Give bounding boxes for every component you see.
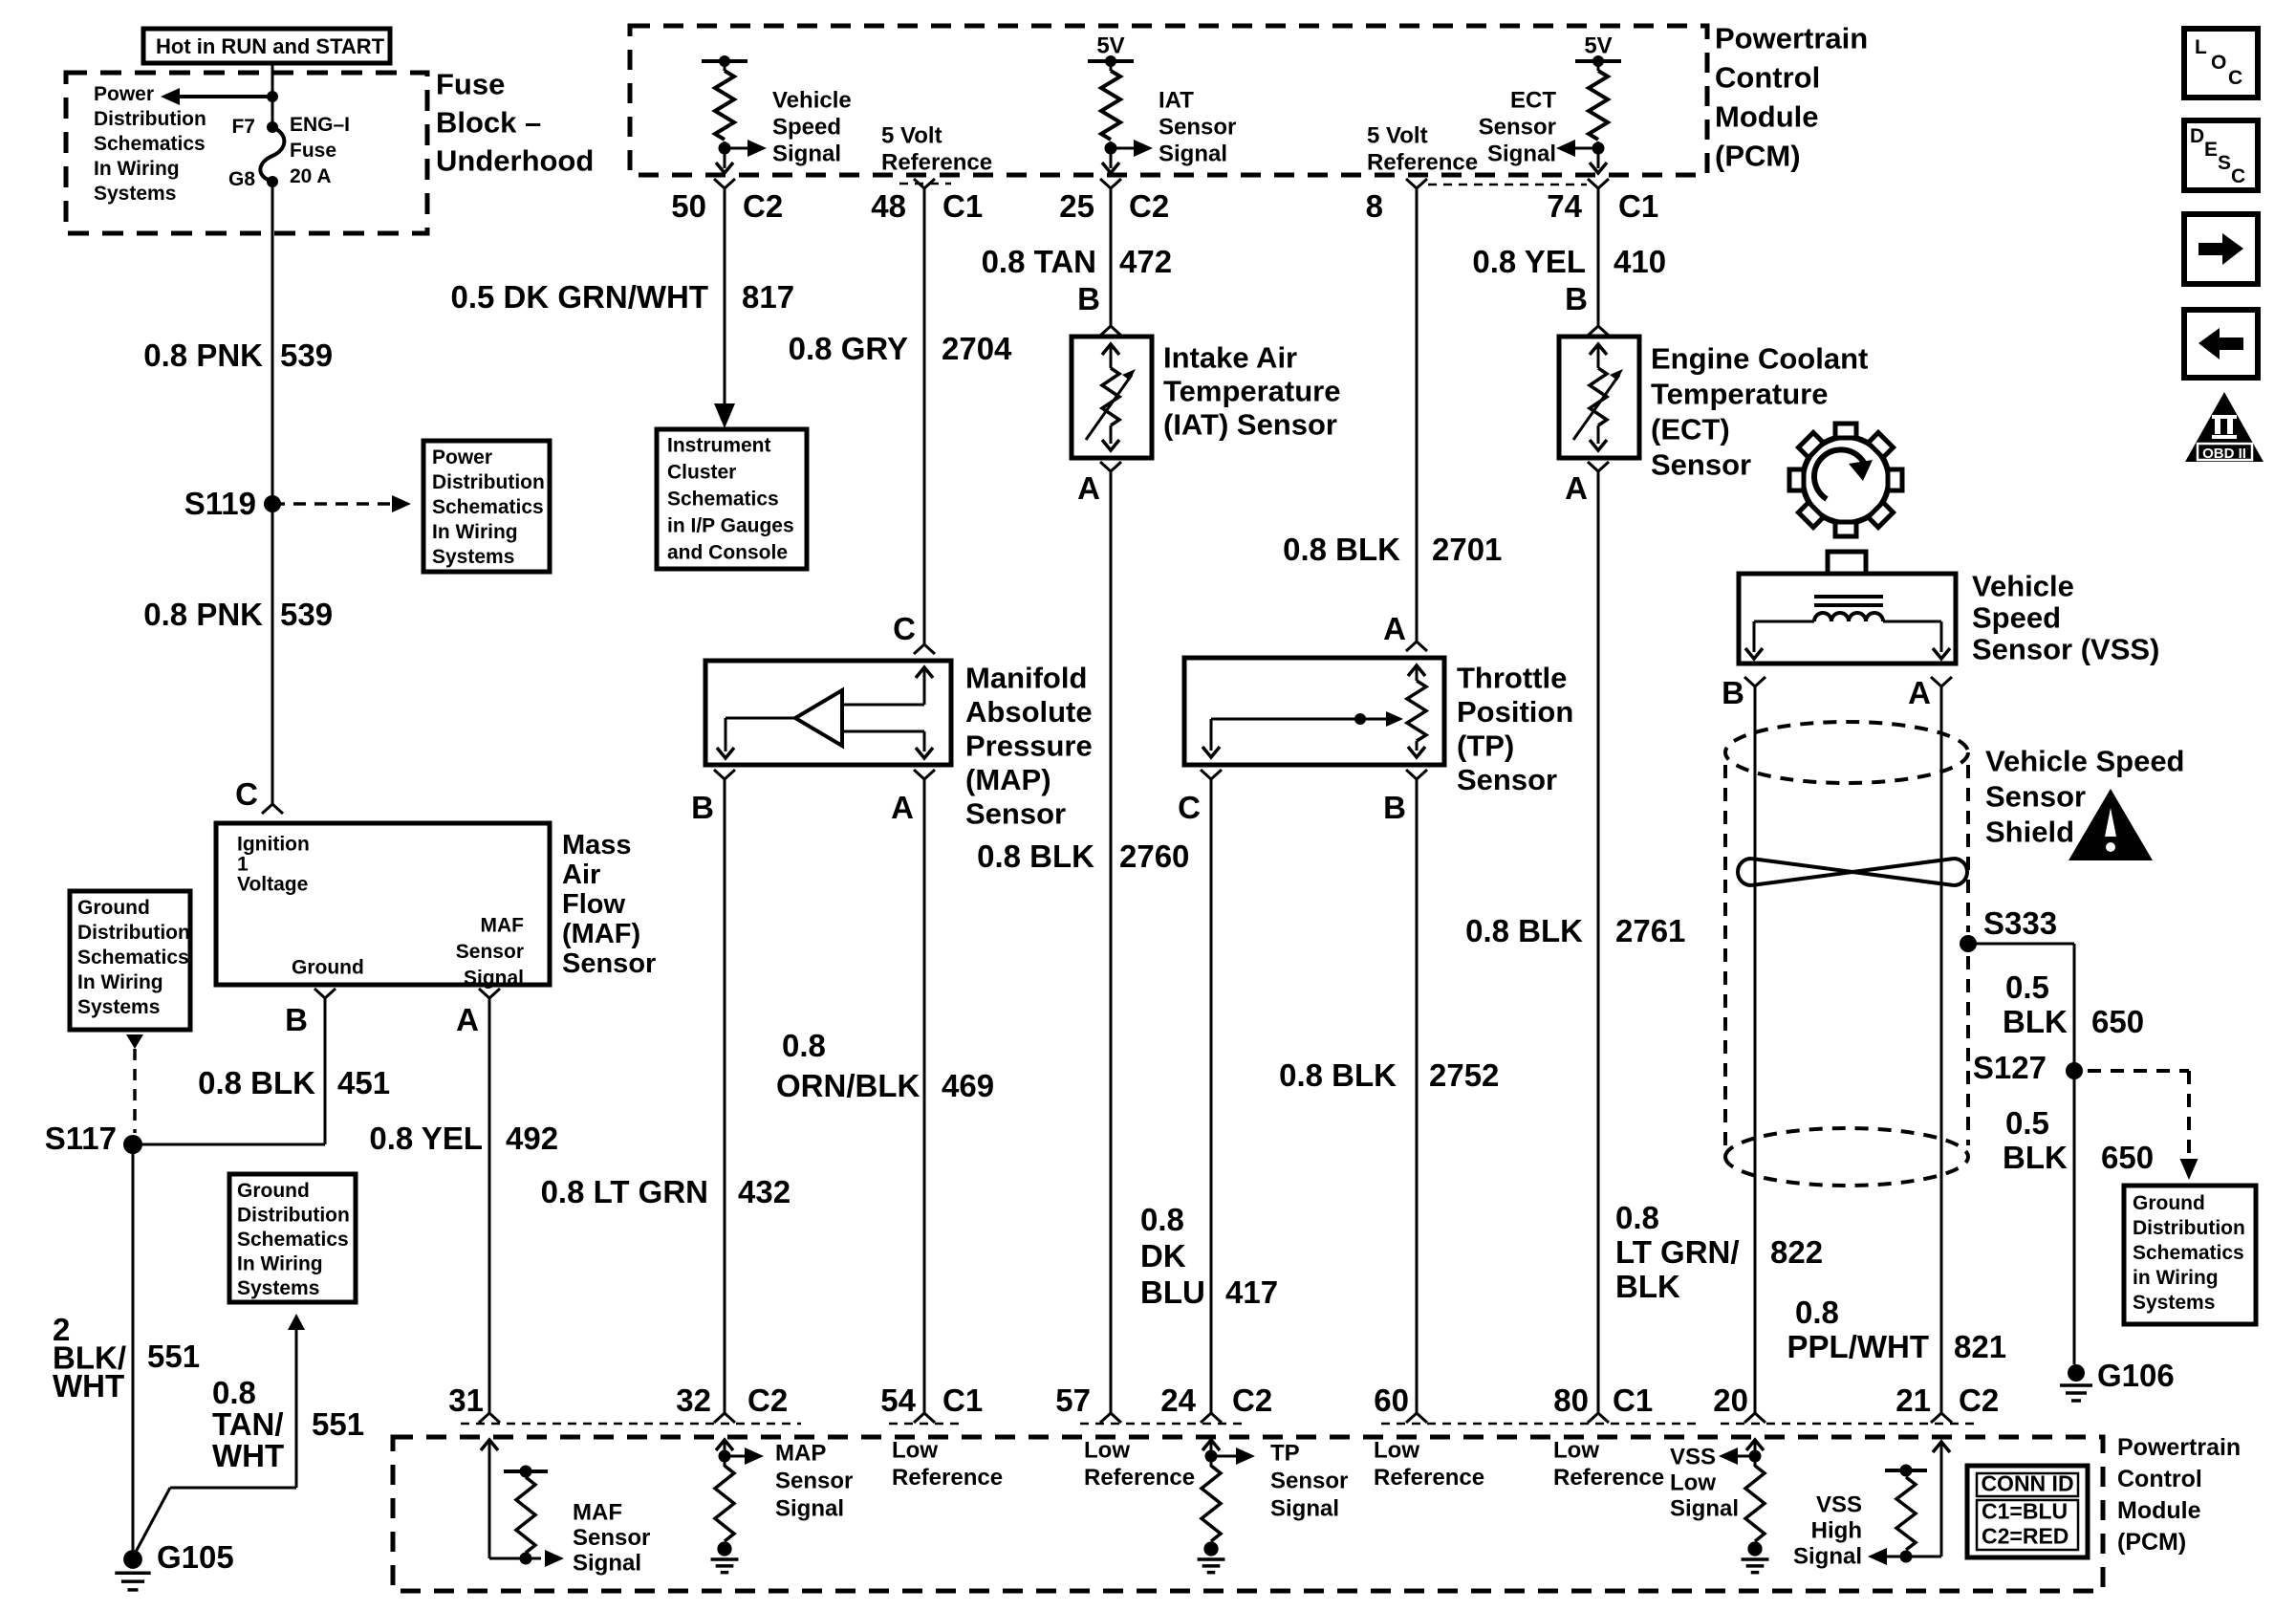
svg-text:C: C <box>2228 67 2242 89</box>
svg-text:C: C <box>235 776 258 812</box>
svg-text:551: 551 <box>312 1406 364 1442</box>
svg-text:(ECT): (ECT) <box>1651 413 1730 446</box>
wire VSS B to pin 20 <box>1754 686 1757 1413</box>
svg-text:Distribution: Distribution <box>2133 1217 2245 1239</box>
svg-text:0.8 BLK: 0.8 BLK <box>1465 913 1583 948</box>
svg-text:32: 32 <box>676 1382 711 1418</box>
pin C label (MAF) <box>235 776 283 814</box>
thin connector dash C1 top (8-74) <box>1428 184 1587 186</box>
svg-text:2701: 2701 <box>1432 532 1502 567</box>
svg-text:G105: G105 <box>157 1539 234 1575</box>
svg-text:Reference: Reference <box>1553 1465 1664 1491</box>
svg-text:In Wiring: In Wiring <box>432 521 518 543</box>
svg-text:S117: S117 <box>45 1121 117 1156</box>
svg-text:(IAT) Sensor: (IAT) Sensor <box>1163 408 1337 442</box>
dashed branch S127 to ground distribution <box>2088 1071 2199 1180</box>
svg-text:650: 650 <box>2101 1140 2154 1175</box>
svg-text:74: 74 <box>1547 188 1582 224</box>
svg-text:BLK: BLK <box>2003 1004 2068 1039</box>
svg-text:Flow: Flow <box>562 889 625 920</box>
svg-text:Systems: Systems <box>237 1277 319 1299</box>
label IAT Sensor Signal <box>1159 88 1236 167</box>
svg-text:0.5: 0.5 <box>2005 1105 2049 1141</box>
label 0.8 BLK 2752 <box>1279 1057 1499 1093</box>
svg-text:in I/P Gauges: in I/P Gauges <box>667 515 794 537</box>
svg-text:G8: G8 <box>228 168 255 190</box>
connector pin 48 <box>871 179 983 224</box>
wire 74 C1 to ECT B (0.8 YEL 410) <box>1597 188 1600 326</box>
svg-text:492: 492 <box>506 1121 558 1156</box>
svg-text:Systems: Systems <box>2133 1292 2215 1314</box>
svg-text:Shield: Shield <box>1985 816 2074 849</box>
svg-text:A: A <box>891 790 914 825</box>
Powertrain Control Module (PCM) top dashed box <box>630 26 1707 175</box>
svg-text:Reference: Reference <box>892 1465 1003 1491</box>
svg-text:(PCM): (PCM) <box>2117 1529 2186 1556</box>
pin A label (MAP) <box>891 770 935 825</box>
label Powertrain Control Module (PCM) top <box>1715 22 1868 173</box>
svg-text:24: 24 <box>1160 1382 1196 1418</box>
svg-text:Power: Power <box>94 83 154 105</box>
svg-text:Control: Control <box>1715 61 1820 95</box>
svg-text:(PCM): (PCM) <box>1715 140 1801 173</box>
svg-text:G106: G106 <box>2097 1358 2175 1393</box>
pin B label (VSS) <box>1722 675 1765 710</box>
svg-text:BLK: BLK <box>2003 1140 2068 1175</box>
svg-text:Signal: Signal <box>1670 1496 1739 1522</box>
svg-text:0.8: 0.8 <box>782 1028 826 1063</box>
svg-text:A: A <box>1565 470 1588 506</box>
svg-text:PPL/WHT: PPL/WHT <box>1787 1329 1929 1364</box>
svg-text:Reference: Reference <box>1084 1465 1195 1491</box>
VSS low signal input (PCM) <box>1719 1440 1768 1573</box>
svg-text:S: S <box>2218 152 2231 174</box>
svg-text:Module: Module <box>2117 1497 2201 1524</box>
svg-text:B: B <box>1722 675 1744 710</box>
svg-text:S119: S119 <box>184 486 256 521</box>
svg-text:Distribution: Distribution <box>237 1205 350 1227</box>
svg-text:Systems: Systems <box>94 183 176 205</box>
label Vehicle Speed Signal <box>772 88 852 167</box>
svg-text:Voltage: Voltage <box>237 874 308 896</box>
label F7 <box>231 116 255 138</box>
wire MAP A to pin 54 (0.8 ORN/BLK 469) <box>923 779 926 1413</box>
svg-text:0.8 LT GRN: 0.8 LT GRN <box>541 1174 708 1209</box>
fuse block dashed box (Fuse Block - Underhood) <box>66 73 427 233</box>
svg-text:0.8 YEL: 0.8 YEL <box>369 1121 483 1156</box>
svg-text:Sensor: Sensor <box>775 1469 853 1494</box>
svg-text:Signal: Signal <box>775 1496 844 1522</box>
svg-text:0.8 PNK: 0.8 PNK <box>143 597 263 632</box>
svg-text:0.8: 0.8 <box>212 1375 256 1410</box>
svg-text:B: B <box>1077 281 1100 316</box>
MAF sensor signal input (PCM) <box>481 1440 564 1567</box>
svg-text:Schematics: Schematics <box>77 947 189 969</box>
svg-text:Cluster: Cluster <box>667 462 736 484</box>
twisted pair symbol <box>1738 859 1967 885</box>
svg-text:LT GRN/: LT GRN/ <box>1615 1234 1740 1270</box>
svg-text:Powertrain: Powertrain <box>1715 22 1868 55</box>
thin connector dash at 48 <box>899 183 951 185</box>
label 0.8 GRY 2704 <box>789 331 1012 366</box>
pin A label (ECT) <box>1565 462 1609 506</box>
svg-text:0.8 YEL: 0.8 YEL <box>1472 244 1586 279</box>
VSS speed signal driver resistor (PCM) <box>702 55 767 173</box>
svg-text:(MAP): (MAP) <box>965 763 1051 796</box>
MAP sensor signal input (PCM) <box>711 1440 764 1573</box>
svg-text:C2: C2 <box>743 188 783 224</box>
svg-text:MAF: MAF <box>573 1500 622 1526</box>
label Vehicle Speed Sensor Shield <box>1985 745 2185 849</box>
label Powertrain Control Module (PCM) bottom <box>2117 1434 2241 1556</box>
svg-text:Speed: Speed <box>1972 601 2061 635</box>
svg-text:OBD II: OBD II <box>2202 446 2246 462</box>
wire IAT A to pin 57 (0.8 BLK 2760) <box>1110 471 1113 1413</box>
svg-text:0.8 BLK: 0.8 BLK <box>1283 532 1400 567</box>
ECT pull-up resistor (PCM) <box>1556 55 1621 173</box>
svg-text:432: 432 <box>738 1174 791 1209</box>
label Fuse Block - Underhood <box>436 68 594 178</box>
connector pin 31 <box>448 1382 500 1423</box>
svg-text:Sensor (VSS): Sensor (VSS) <box>1972 633 2159 666</box>
label 0.8 TAN 472 <box>982 244 1172 279</box>
svg-text:20: 20 <box>1713 1382 1748 1418</box>
svg-text:5 Volt: 5 Volt <box>1367 123 1428 149</box>
svg-text:In Wiring: In Wiring <box>237 1253 323 1275</box>
svg-text:C2: C2 <box>1959 1382 1999 1418</box>
svg-text:Signal: Signal <box>772 142 841 167</box>
svg-text:Low: Low <box>1670 1470 1716 1496</box>
label 0.8 BLK 2760 <box>977 838 1189 874</box>
connector pin 8 <box>1366 179 1427 224</box>
svg-text:2752: 2752 <box>1429 1057 1499 1093</box>
svg-text:20 A: 20 A <box>290 165 332 187</box>
svg-text:2761: 2761 <box>1615 913 1685 948</box>
svg-text:Air: Air <box>562 860 600 890</box>
svg-text:Vehicle: Vehicle <box>772 88 852 114</box>
wire 50 C2 to instrument cluster (0.5 DK GRN/WHT 817) <box>714 188 735 428</box>
svg-text:ORN/BLK: ORN/BLK <box>776 1068 920 1103</box>
box Ground Distribution Schematics In Wiring Systems (left) <box>70 891 190 1030</box>
label Vehicle Speed Sensor (VSS) <box>1972 570 2159 666</box>
svg-text:0.8: 0.8 <box>1615 1200 1659 1235</box>
pin B label (IAT) <box>1077 281 1121 336</box>
label 0.8 PNK 539 (lower) <box>143 597 333 632</box>
svg-text:Pressure: Pressure <box>965 729 1093 763</box>
thin connector dashes bottom <box>461 1423 801 1426</box>
svg-text:TAN/: TAN/ <box>212 1406 284 1442</box>
svg-text:(TP): (TP) <box>1457 729 1514 763</box>
svg-text:821: 821 <box>1954 1329 2006 1364</box>
svg-text:A: A <box>1383 611 1406 646</box>
wire S333 to S127 (0.5 BLK 650) <box>1968 944 2074 1364</box>
svg-text:0.5: 0.5 <box>2005 969 2049 1005</box>
TP sensor signal input (PCM) <box>1198 1440 1255 1573</box>
svg-text:High: High <box>1811 1518 1862 1544</box>
arrow to Power Distribution Schematics <box>161 88 272 105</box>
svg-text:VSS: VSS <box>1670 1445 1716 1470</box>
svg-text:417: 417 <box>1225 1274 1278 1310</box>
label 0.8 BLK 451 <box>198 1065 390 1100</box>
pin A label (MAF) <box>456 989 500 1037</box>
label ENG-I Fuse 20 A <box>290 114 350 187</box>
OBD II icon <box>2185 392 2264 462</box>
svg-text:Sensor: Sensor <box>1457 763 1557 796</box>
svg-text:Schematics: Schematics <box>94 133 206 155</box>
wire TP C to pin 24 (0.8 DK BLU 417) <box>1210 779 1213 1413</box>
svg-text:0.8 BLK: 0.8 BLK <box>1279 1057 1397 1093</box>
svg-text:ENG–I: ENG–I <box>290 114 350 136</box>
svg-text:Throttle: Throttle <box>1457 662 1567 695</box>
node junction above fuse <box>267 91 278 102</box>
svg-text:C2: C2 <box>1232 1382 1272 1418</box>
svg-text:5V: 5V <box>1584 33 1612 59</box>
svg-text:Ground: Ground <box>292 957 364 979</box>
pin B label (ECT) <box>1565 281 1609 336</box>
svg-text:551: 551 <box>147 1339 200 1374</box>
connector pin 74 <box>1547 179 1658 224</box>
svg-text:50: 50 <box>671 188 706 224</box>
svg-text:Signal: Signal <box>464 968 524 990</box>
svg-text:Low: Low <box>1084 1438 1130 1464</box>
label 0.8 BLK 2761 <box>1465 913 1685 948</box>
svg-text:F7: F7 <box>231 116 255 138</box>
wire MAP B to pin 32 (0.8 LT GRN 432) <box>724 779 726 1413</box>
svg-text:Mass: Mass <box>562 830 632 860</box>
svg-text:2760: 2760 <box>1119 838 1189 874</box>
svg-text:Distribution: Distribution <box>94 108 206 130</box>
svg-text:Speed: Speed <box>772 115 841 141</box>
svg-text:C: C <box>2231 165 2245 187</box>
svg-text:8: 8 <box>1366 188 1383 224</box>
svg-text:Low: Low <box>1553 1438 1599 1464</box>
svg-text:Sensor: Sensor <box>1985 780 2086 814</box>
label 5V (ECT) <box>1584 33 1612 59</box>
VSS high signal input (PCM) <box>1868 1442 1950 1565</box>
svg-text:Reference: Reference <box>1374 1465 1484 1491</box>
label MAF Sensor Signal (PCM) <box>573 1500 650 1577</box>
fuse F7/G8 terminals <box>267 121 278 187</box>
svg-text:Ignition: Ignition <box>237 834 310 856</box>
svg-text:B: B <box>285 1002 308 1037</box>
svg-text:Schematics: Schematics <box>237 1229 349 1251</box>
label 0.8 YEL 410 <box>1472 244 1666 279</box>
label 2 BLK/WHT 551 <box>53 1312 200 1404</box>
VSS reluctor gear icon <box>1789 424 1902 536</box>
svg-text:5V: 5V <box>1096 33 1124 59</box>
svg-text:31: 31 <box>448 1382 484 1418</box>
svg-text:Distribution: Distribution <box>77 922 190 944</box>
svg-text:25: 25 <box>1059 188 1094 224</box>
wire 48 C1 to MAP sensor C (0.8 GRY 2704) <box>923 188 926 644</box>
svg-text:C2=RED: C2=RED <box>1982 1524 2069 1549</box>
MAF sensor box (Mass Air Flow) <box>216 823 550 990</box>
wire from Hot box into fuse block <box>271 63 274 127</box>
wire 25 C2 to IAT B (0.8 TAN 472) <box>1110 188 1113 326</box>
svg-text:Sensor: Sensor <box>1159 115 1236 141</box>
dashed reference wire from S119 <box>272 495 411 512</box>
svg-text:Signal: Signal <box>1793 1544 1862 1570</box>
label Intake Air Temperature (IAT) Sensor <box>1163 341 1341 442</box>
svg-text:In Wiring: In Wiring <box>77 971 163 993</box>
label Engine Coolant Temperature (ECT) Sensor <box>1651 342 1868 482</box>
svg-text:817: 817 <box>742 279 794 315</box>
label 0.8 PPL/WHT 821 <box>1787 1295 2007 1364</box>
svg-text:C1: C1 <box>942 1382 983 1418</box>
label Mass Air Flow (MAF) Sensor <box>562 830 656 979</box>
svg-text:WHT: WHT <box>53 1368 124 1404</box>
svg-text:Absolute: Absolute <box>965 695 1093 729</box>
pin B label (TP) <box>1383 770 1427 825</box>
svg-text:WHT: WHT <box>212 1438 284 1473</box>
svg-text:1: 1 <box>237 854 249 876</box>
pin B label (MAF) <box>285 989 336 1037</box>
MAP sensor (Manifold Absolute Pressure) <box>705 661 951 765</box>
svg-text:C: C <box>1178 790 1201 825</box>
ECT sensor (Engine Coolant Temperature) <box>1559 337 1639 458</box>
VSS mounting tab <box>1828 552 1866 574</box>
svg-text:80: 80 <box>1553 1382 1589 1418</box>
wire TP B to pin 60 (0.8 BLK 2752) <box>1416 779 1419 1413</box>
svg-text:L: L <box>2195 36 2207 58</box>
splice S127 <box>1973 1050 2083 1085</box>
svg-text:IAT: IAT <box>1159 88 1194 114</box>
svg-text:Sensor: Sensor <box>562 948 656 979</box>
connector pin 80 <box>1553 1382 1653 1423</box>
svg-text:Signal: Signal <box>1270 1496 1339 1522</box>
label 5V (IAT) <box>1096 33 1124 59</box>
svg-text:Intake Air: Intake Air <box>1163 341 1297 375</box>
label MAP Sensor Signal (PCM) <box>775 1441 853 1522</box>
label 0.8 BLK 2701 <box>1283 532 1502 567</box>
label Low Reference (80) <box>1553 1438 1664 1491</box>
svg-text:Fuse: Fuse <box>436 68 505 101</box>
svg-text:C1=BLU: C1=BLU <box>1982 1499 2068 1524</box>
wire MAF B to S117 (0.8 BLK 451) <box>133 998 325 1144</box>
svg-text:Sensor: Sensor <box>1270 1469 1348 1494</box>
svg-text:Underhood: Underhood <box>436 144 594 178</box>
svg-text:822: 822 <box>1770 1234 1823 1270</box>
svg-text:BLK: BLK <box>1615 1269 1680 1304</box>
svg-text:48: 48 <box>871 188 906 224</box>
svg-text:Vehicle Speed: Vehicle Speed <box>1985 745 2185 778</box>
svg-text:472: 472 <box>1119 244 1172 279</box>
svg-text:Block –: Block – <box>436 106 541 140</box>
label TP Sensor Signal (PCM) <box>1270 1441 1348 1522</box>
svg-text:21: 21 <box>1895 1382 1931 1418</box>
label Manifold Absolute Pressure (MAP) Sensor <box>965 662 1093 831</box>
forward arrow icon <box>2184 214 2258 284</box>
pin C label (MAP) <box>893 611 935 654</box>
svg-text:Control: Control <box>2117 1466 2202 1492</box>
svg-text:O: O <box>2211 52 2226 74</box>
svg-text:Manifold: Manifold <box>965 662 1087 695</box>
label 0.5 BLK 650 (lower) <box>2003 1105 2154 1175</box>
pin B label (MAP) <box>691 770 735 825</box>
IAT sensor (Intake Air Temperature) <box>1072 337 1152 458</box>
VSS shield dashed cylinder <box>1725 722 1968 1186</box>
label 5 Volt Reference (48) <box>881 123 992 176</box>
Vehicle Speed Sensor (VSS) box <box>1739 574 1956 664</box>
svg-text:57: 57 <box>1055 1382 1091 1418</box>
svg-text:2704: 2704 <box>942 331 1012 366</box>
box Ground Distribution Schematics In Wiring Systems (mid) <box>229 1174 356 1302</box>
svg-text:S127: S127 <box>1973 1050 2047 1085</box>
svg-text:410: 410 <box>1614 244 1666 279</box>
connector pin 54 <box>880 1382 983 1423</box>
svg-text:0.8 PNK: 0.8 PNK <box>143 337 263 373</box>
wire VSS A to pin 21 <box>1940 686 1943 1413</box>
fuse ENG-I element <box>260 127 284 181</box>
svg-text:B: B <box>1383 790 1406 825</box>
svg-text:539: 539 <box>280 337 333 373</box>
CONN ID table <box>1967 1466 2088 1557</box>
DESC icon <box>2184 120 2258 190</box>
svg-text:0.8: 0.8 <box>1795 1295 1839 1330</box>
label 0.8 YEL 492 <box>369 1121 558 1156</box>
splice S333 on shield <box>1960 905 2057 952</box>
svg-text:Systems: Systems <box>77 996 160 1018</box>
svg-text:A: A <box>456 1002 479 1037</box>
svg-text:Signal: Signal <box>1487 142 1556 167</box>
label 0.8 TAN/WHT 551 <box>212 1375 364 1473</box>
wire 8 to TP sensor A (0.8 BLK 2701) <box>1416 188 1419 642</box>
svg-text:54: 54 <box>880 1382 916 1418</box>
svg-text:CONN ID: CONN ID <box>1981 1471 2073 1496</box>
svg-text:D: D <box>2190 125 2204 147</box>
label VSS Low Signal (PCM) <box>1670 1445 1739 1522</box>
svg-text:VSS: VSS <box>1816 1492 1862 1518</box>
wire S117 to G105 (2 BLK/WHT 551) <box>132 1144 135 1556</box>
label Power Distribution Schematics In Wiring Systems (fuse box) <box>94 83 206 205</box>
label Low Reference (60) <box>1374 1438 1484 1491</box>
LOC icon <box>2184 29 2258 98</box>
connector pin 20 <box>1713 1382 1765 1423</box>
pin A label (VSS) <box>1908 675 1952 710</box>
label G8 <box>228 168 255 190</box>
wire fuse to MAF sensor (0.8 PNK 539) <box>271 182 274 804</box>
splice S119 <box>184 486 281 521</box>
svg-text:0.8 TAN: 0.8 TAN <box>982 244 1096 279</box>
svg-text:in Wiring: in Wiring <box>2133 1267 2219 1289</box>
svg-text:Sensor: Sensor <box>965 797 1066 831</box>
svg-text:Powertrain: Powertrain <box>2117 1434 2241 1461</box>
svg-text:0.8 GRY: 0.8 GRY <box>789 331 908 366</box>
svg-text:Schematics: Schematics <box>2133 1242 2244 1264</box>
IAT pull-up resistor (PCM) <box>1088 55 1153 173</box>
svg-text:Ground: Ground <box>237 1180 310 1202</box>
svg-text:Ground: Ground <box>77 897 150 919</box>
label 0.5 BLK 650 (upper) <box>2003 969 2144 1039</box>
Instrument Cluster box <box>657 429 807 569</box>
svg-text:Ground: Ground <box>2133 1192 2205 1214</box>
svg-text:Engine Coolant: Engine Coolant <box>1651 342 1868 376</box>
svg-text:Power: Power <box>432 446 492 468</box>
svg-text:Fuse: Fuse <box>290 140 336 162</box>
label 0.8 LT GRN 432 <box>541 1174 791 1209</box>
arrow into mid ground box + wire 0.8 TAN/WHT 551 <box>135 1314 305 1554</box>
svg-text:Distribution: Distribution <box>432 471 545 493</box>
connector pin 57 <box>1055 1382 1121 1423</box>
svg-text:Low: Low <box>892 1438 938 1464</box>
svg-text:MAP: MAP <box>775 1441 826 1467</box>
connector pin 32 <box>676 1382 788 1423</box>
pin C label (TP) <box>1178 770 1222 825</box>
box Ground Distribution Schematics in Wiring Systems (right) <box>2124 1186 2256 1324</box>
svg-text:Temperature: Temperature <box>1651 378 1829 411</box>
svg-text:DK: DK <box>1140 1238 1186 1274</box>
svg-text:C1: C1 <box>1613 1382 1653 1418</box>
